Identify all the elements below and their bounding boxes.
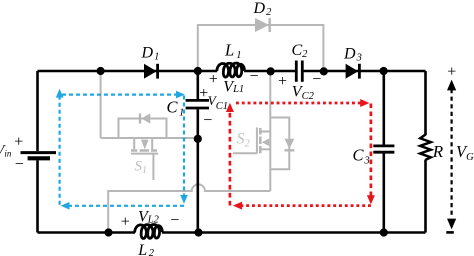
S2 channel segments xyxy=(259,128,262,153)
wire: left edge above battery xyxy=(36,71,39,151)
wire: S1 gate bar xyxy=(131,153,158,155)
wire: blue loop bottom side xyxy=(69,205,184,207)
svg-text:−: − xyxy=(203,112,212,129)
svg-text:−: − xyxy=(15,156,24,173)
wire: C3 branch upper xyxy=(382,71,385,145)
wire: D2 bypass branch (node D1-cathode up, across top, down to C2-D3 node) xyxy=(198,25,324,71)
capacitor C2 plates (vertical) xyxy=(296,61,302,82)
capacitor C1 plates xyxy=(186,100,209,108)
resistor R zigzag xyxy=(420,135,431,160)
S2 body diode (points down) xyxy=(285,139,295,151)
node: C2-D3 / D2 cathode xyxy=(320,67,328,75)
inductor L1 coil xyxy=(217,63,245,77)
wire: S1 drain lead from top rail node down xyxy=(100,71,102,138)
wire: S2 source return to bottom rail with hop over C1 branch xyxy=(108,184,270,232)
wire: S2 main vertical line from L1-C2 node down xyxy=(269,71,271,191)
svg-text:+: + xyxy=(14,134,23,151)
svg-text:−: − xyxy=(312,71,321,88)
node: D1 cathode / C1 / D2 / L1 xyxy=(194,67,202,75)
wire: red loop bottom side xyxy=(242,204,371,207)
wire: S1 source stub xyxy=(151,138,153,149)
wire: C3 branch lower xyxy=(382,153,385,232)
wire: C1 branch lower xyxy=(197,109,200,232)
diode D3 (points right) xyxy=(346,64,360,79)
diode D2 (gray, points right) xyxy=(255,18,270,32)
wire: top rail right segment (C2 right plate to top-right corner) xyxy=(304,70,426,73)
battery Vin plates xyxy=(21,153,57,159)
node: S2 source return on bottom rail xyxy=(104,228,112,236)
diode D1 (points right) xyxy=(144,64,158,79)
wire: red loop left side xyxy=(229,112,232,206)
red arrowhead up xyxy=(226,103,234,112)
svg-text:−: − xyxy=(250,68,259,85)
svg-text:−: − xyxy=(170,212,179,229)
blue arrowhead down xyxy=(180,195,188,204)
wire: S2 gate bar xyxy=(256,128,258,154)
red arrowhead right xyxy=(360,99,369,107)
wire: bottom rail right of L2 xyxy=(162,231,426,234)
node: D3 cathode / C3 / R xyxy=(380,67,388,75)
svg-text:R: R xyxy=(432,142,444,161)
wire: S1 gate lead (dangling) xyxy=(152,154,154,180)
svg-text:+: + xyxy=(121,213,130,230)
VG arrowhead up xyxy=(447,80,456,91)
VG arrowhead down xyxy=(447,219,456,230)
wire: top rail middle segment (L1 to C2 left plate) xyxy=(244,70,295,73)
VG minus bar xyxy=(446,231,454,234)
wire: bottom rail left of L2 xyxy=(38,231,136,234)
node: S1 source on C1 branch xyxy=(194,135,202,143)
node: L1-C2 / S2 drain xyxy=(267,67,275,75)
svg-text:+: + xyxy=(209,71,218,88)
S2 MOSFET arrow (points left) xyxy=(262,139,270,147)
S1 MOSFET arrow (points down) xyxy=(141,140,149,150)
blue arrowhead up xyxy=(56,89,64,98)
wire: C1 branch upper xyxy=(197,71,200,99)
wire: S1 drain stub xyxy=(133,138,135,149)
wire: left edge below battery xyxy=(36,160,39,232)
VG measurement dashed arrow xyxy=(451,89,453,218)
S1 channel segments xyxy=(131,149,157,152)
blue arrowhead left xyxy=(61,202,70,210)
wire: blue loop right side xyxy=(183,96,185,196)
node: C3 on bottom rail xyxy=(380,228,388,236)
wire: S2 drain stub xyxy=(261,131,270,133)
wire: S2 gate lead (dangling) xyxy=(233,152,257,154)
svg-text:+: + xyxy=(278,73,287,90)
wire: red loop top side xyxy=(236,102,361,105)
S1 body diode (points left) xyxy=(140,113,150,123)
red arrowhead left xyxy=(233,202,242,210)
wire: top rail left segment (Vin+ to L1) xyxy=(38,70,218,73)
capacitor C3 plates xyxy=(373,146,394,152)
wire: S1 body-diode rectangle xyxy=(119,119,167,139)
node: C1 branch on bottom rail xyxy=(194,228,202,236)
wire: right edge above R xyxy=(424,71,427,135)
wire: blue loop left side xyxy=(58,98,60,205)
wire: S1 main horizontal line xyxy=(101,137,198,139)
wire: red loop right side xyxy=(370,104,373,196)
red arrowhead down xyxy=(367,195,375,204)
blue arrowhead right xyxy=(176,91,185,99)
wire: right edge below R xyxy=(424,160,427,233)
inductor L2 coil xyxy=(135,224,163,238)
svg-text:+: + xyxy=(447,63,456,80)
wire: blue loop top side xyxy=(62,93,176,95)
wire: S2 source stub xyxy=(261,148,270,150)
node: S1 drain tap on top rail xyxy=(97,67,105,75)
wire: S2 body-diode rectangle xyxy=(270,118,289,170)
